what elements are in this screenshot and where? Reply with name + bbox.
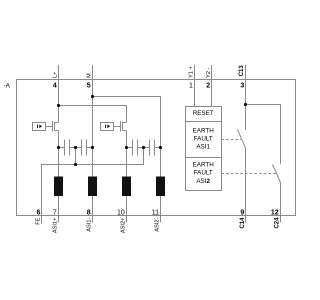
svg-text:EARTH: EARTH	[193, 162, 215, 169]
capacitor C2b plates	[150, 140, 155, 156]
junction node chain1 mid	[74, 146, 77, 149]
wire cap chain 2 segments	[127, 147, 161, 149]
junction node chain1 right	[91, 146, 94, 149]
junction node chain2 left	[125, 146, 128, 149]
svg-text:FE: FE	[36, 217, 42, 224]
terminal labels bottom (rotated)	[36, 217, 281, 233]
wire terminal 2 Y2 vertical	[211, 65, 213, 107]
capacitor C2a plates	[133, 140, 138, 156]
wire terminal 5 M vertical	[92, 65, 94, 223]
wire ASI2+ vertical below transistor Q2	[126, 131, 128, 223]
wire FE net	[42, 148, 144, 224]
svg-text:1: 1	[189, 83, 193, 90]
wire C24 vertical lower	[280, 183, 282, 223]
transistor Q2	[114, 121, 127, 132]
svg-text:Y1 +: Y1 +	[189, 65, 195, 78]
svg-text:3: 3	[240, 83, 244, 90]
svg-text:ASI2+: ASI2+	[121, 217, 127, 233]
junction node chain1 left	[57, 146, 60, 149]
svg-text:C13: C13	[239, 65, 245, 77]
svg-text:ASI1-: ASI1-	[86, 217, 92, 231]
control block K (RESET / EARTH FAULT)	[186, 107, 222, 191]
choke L2 ASI1-	[88, 177, 97, 197]
junction node C13 branch	[244, 103, 247, 106]
dashed actuation link 1	[222, 139, 242, 141]
contact K1 blade	[238, 130, 246, 149]
junction node FE line	[74, 163, 77, 166]
junction node M rail	[91, 95, 94, 98]
optocoupler U1 symbol	[37, 125, 39, 129]
svg-text:C14: C14	[240, 217, 246, 229]
dashed actuation link 2	[222, 173, 277, 175]
wire C14 vertical lower	[245, 148, 247, 223]
wire L+ rail to Q2	[59, 106, 127, 123]
svg-text:2: 2	[206, 83, 210, 90]
terminal numbers bottom	[36, 210, 278, 217]
svg-text:-A: -A	[4, 83, 11, 90]
svg-text:11: 11	[152, 210, 159, 217]
wire C13 branch to contact K2	[246, 105, 281, 165]
wire ASI1+ vertical below transistor Q1	[58, 131, 60, 223]
choke L4 ASI2-	[156, 177, 165, 197]
svg-text:ASI1: ASI1	[196, 143, 210, 150]
svg-text:8: 8	[87, 210, 91, 217]
svg-text:10: 10	[117, 210, 125, 217]
svg-text:9: 9	[240, 210, 244, 217]
optocoupler U2 symbol	[105, 125, 107, 129]
svg-text:4: 4	[53, 83, 57, 90]
junction node chain2 right	[159, 146, 162, 149]
wire terminal 3 C13 vertical upper	[245, 65, 247, 130]
optocoupler U2 box	[101, 123, 114, 131]
transistor Q1	[46, 121, 59, 132]
optocoupler U1 box	[33, 123, 46, 131]
wire FE stub to cap chain 1 mid	[75, 148, 77, 165]
enclosure box -A	[17, 80, 296, 216]
wire cap chain 1 segments	[59, 147, 93, 149]
capacitor C1a plates	[65, 140, 70, 156]
svg-text:7: 7	[53, 210, 57, 217]
wire M rail to ASI2-	[93, 97, 161, 223]
wire terminal 1 Y1 vertical	[194, 65, 196, 107]
svg-text:M: M	[86, 73, 92, 78]
choke L1 ASI1+	[54, 177, 63, 197]
svg-text:EARTH: EARTH	[193, 128, 215, 135]
choke L3 ASI2+	[122, 177, 131, 197]
svg-text:RESET: RESET	[193, 110, 214, 117]
svg-text:C24: C24	[274, 217, 280, 229]
svg-text:FAULT: FAULT	[194, 135, 213, 142]
junction node L+ rail	[57, 104, 60, 107]
svg-text:5: 5	[87, 83, 91, 90]
capacitor C1b plates	[82, 140, 87, 156]
svg-text:L+: L+	[53, 71, 59, 78]
svg-text:Y2 -: Y2 -	[206, 67, 212, 78]
control block texts	[193, 110, 215, 185]
svg-text:FAULT: FAULT	[194, 170, 213, 177]
wire terminal 4 L+ vertical	[58, 65, 60, 123]
terminal labels top (rotated)	[53, 65, 245, 78]
svg-text:ASI2: ASI2	[196, 178, 210, 185]
svg-text:12: 12	[271, 210, 279, 217]
svg-text:6: 6	[36, 210, 40, 217]
svg-text:ASI1+: ASI1+	[53, 217, 59, 233]
contact K2 blade	[273, 165, 281, 183]
junction node chain2 mid	[142, 146, 145, 149]
svg-text:ASI2-: ASI2-	[155, 217, 161, 231]
terminal numbers top	[53, 83, 245, 90]
